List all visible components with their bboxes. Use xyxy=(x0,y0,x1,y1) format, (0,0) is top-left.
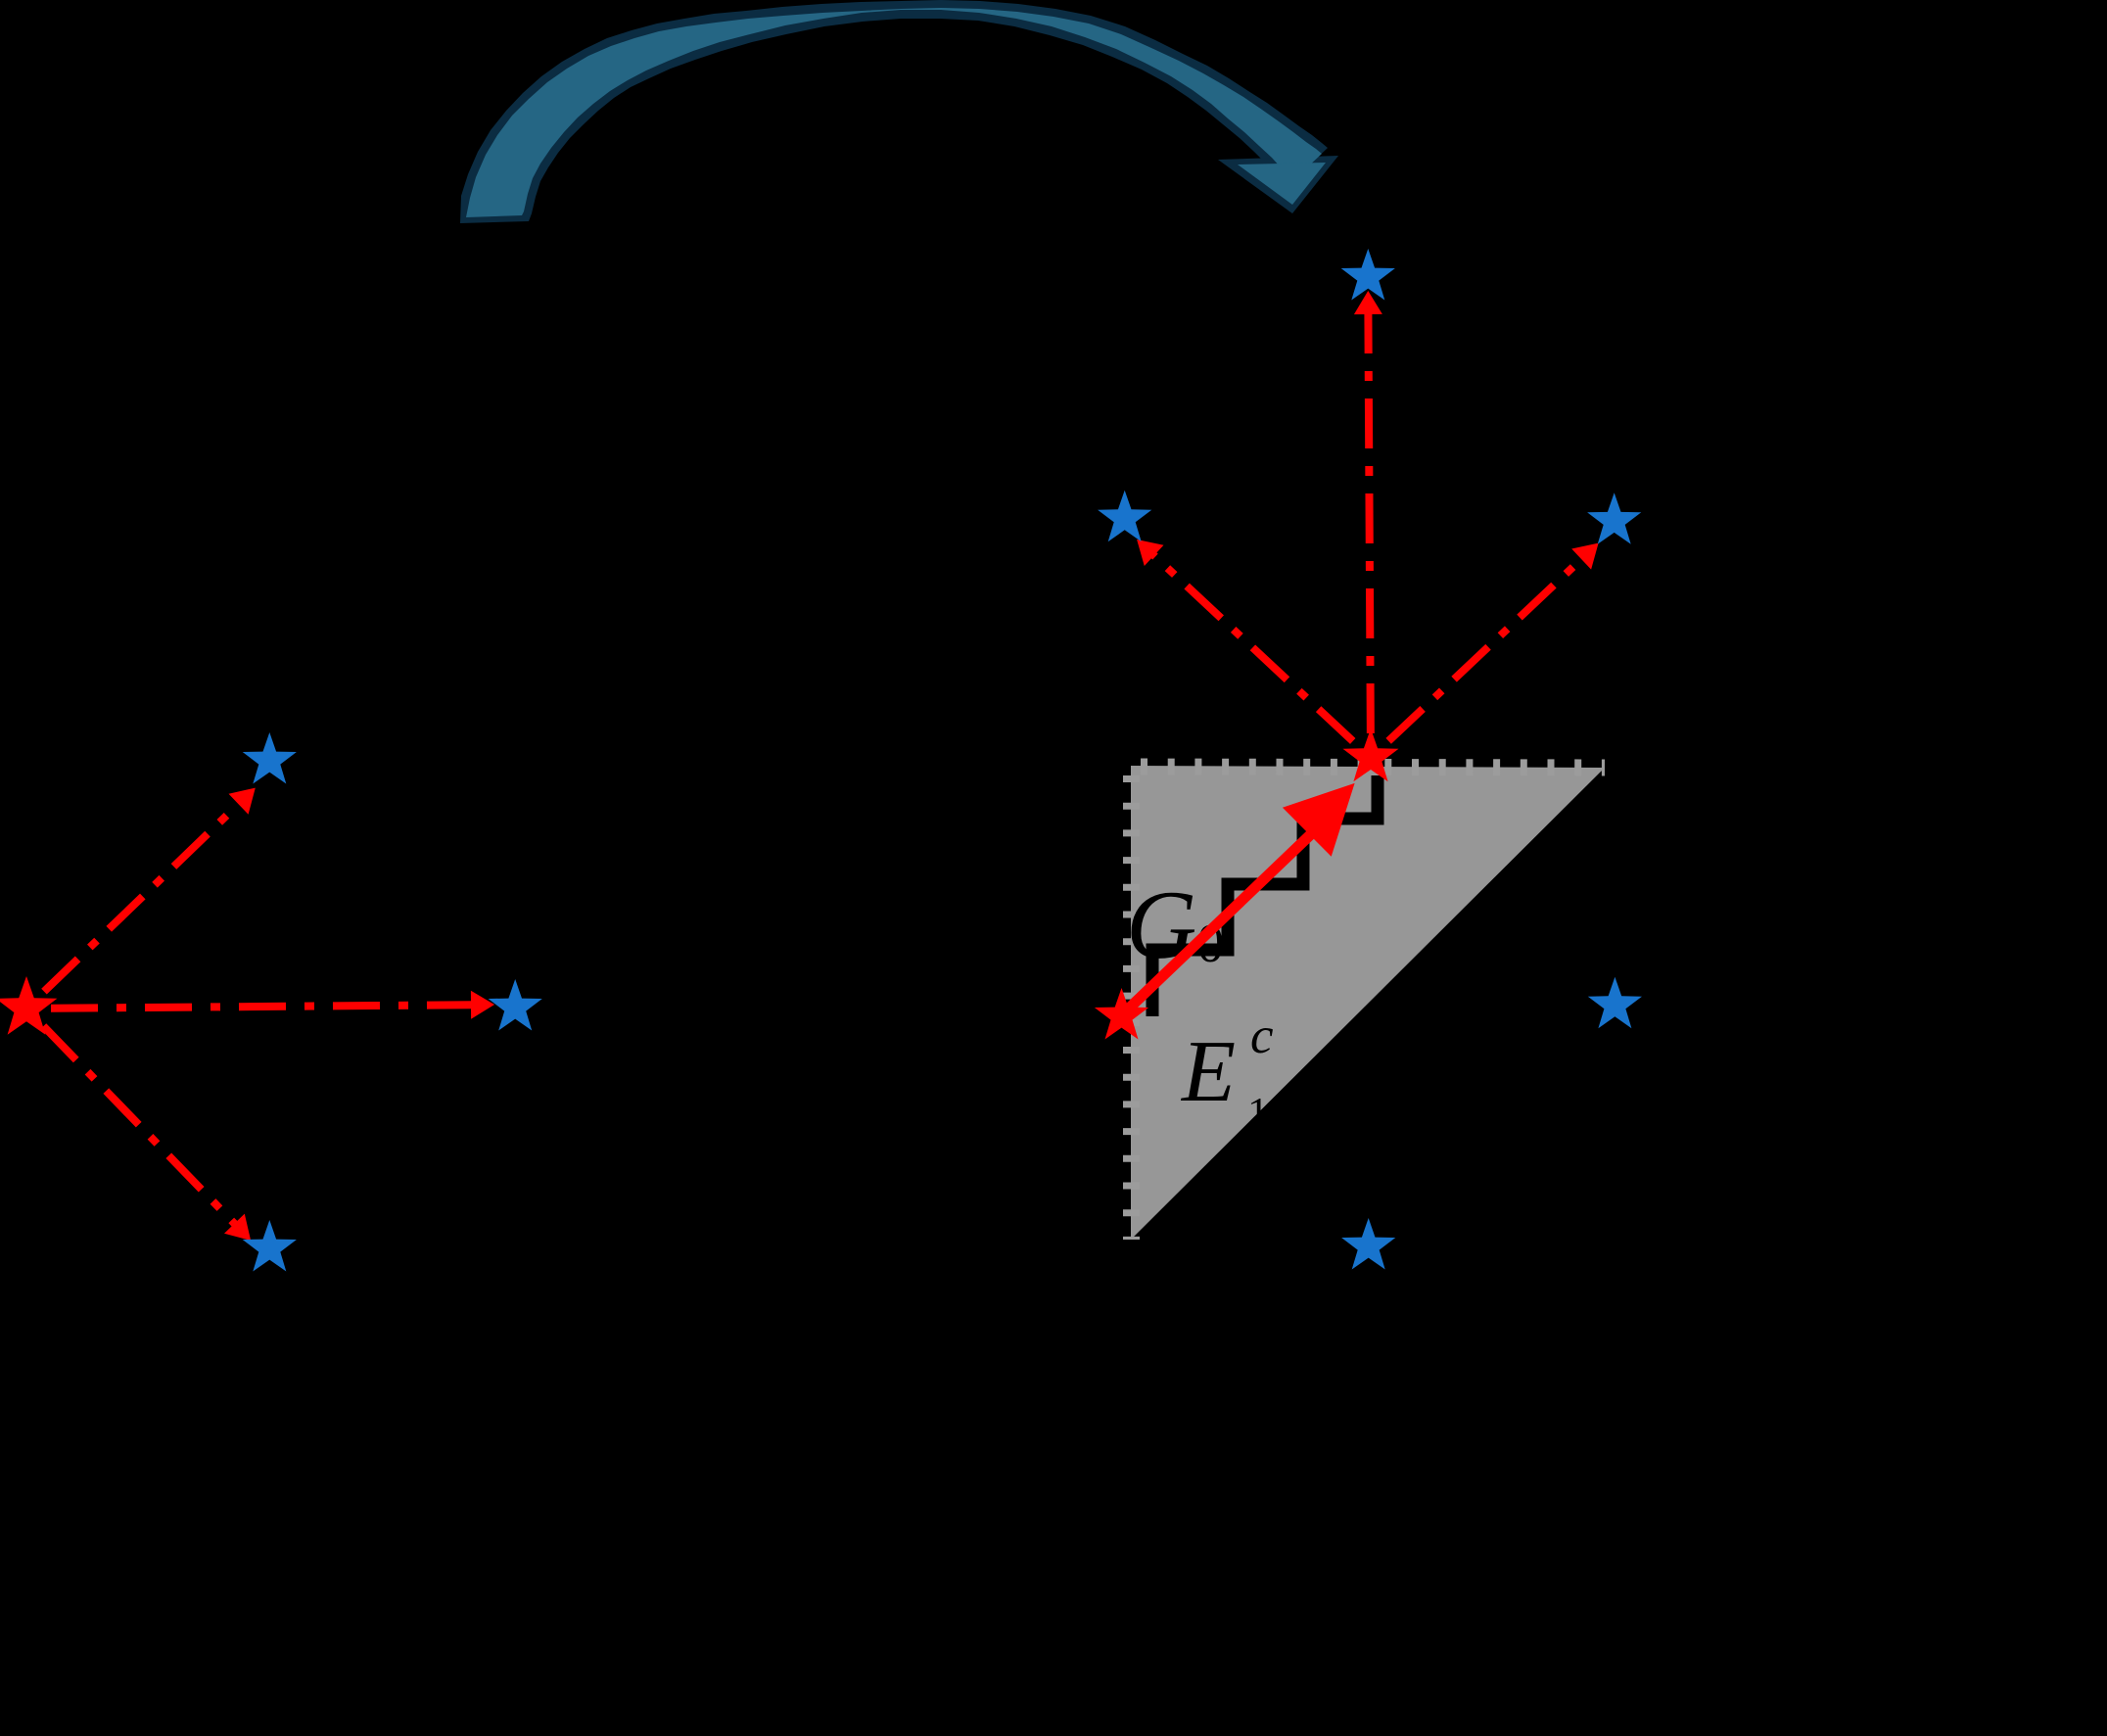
blue star 6 (center right) xyxy=(1587,493,1641,544)
blue star 8 (bottom center) xyxy=(1341,1218,1395,1270)
black staircase line xyxy=(1152,775,1378,1016)
blue star 1 (upper-left group) xyxy=(243,732,297,784)
thick red arrow G0 vector from red star B to red star C xyxy=(1122,833,1313,1015)
blue star 3 (lower-left group) xyxy=(243,1220,297,1272)
red star C (center, origin of fan) xyxy=(1343,728,1399,781)
blue star 7 (right lower) xyxy=(1588,977,1642,1028)
red dash-dot arrow L2 (left origin to right blue star) xyxy=(26,1005,474,1009)
swoosh arrowhead teal fill xyxy=(1238,163,1326,205)
dashed border top edge of triangle xyxy=(1131,767,1605,768)
red dash-dot arrow C3 (center star to upper-right blue star) xyxy=(1371,557,1583,758)
blue star 5 (center left) xyxy=(1098,491,1151,542)
gray region E1c (right triangle) xyxy=(1131,766,1605,1240)
red dash-dot arrow L3 (left origin to lower-left blue star) xyxy=(26,1009,237,1226)
red dash-dot arrow C1 (center star up to top blue star) xyxy=(1368,311,1371,758)
dashed border left edge of triangle xyxy=(1123,766,1140,1240)
swoosh arrowhead dark outline xyxy=(1218,156,1338,213)
blue star 2 (left group right) xyxy=(489,979,542,1031)
swoosh band teal fill xyxy=(466,8,1322,217)
teal curved swoosh arrow: dark outline band xyxy=(460,0,1328,223)
red star A (left origin) xyxy=(0,976,57,1035)
red star B (bottom of G0 vector) xyxy=(1095,988,1148,1040)
blue star 4 (top center) xyxy=(1341,249,1395,301)
red dash-dot arrow L1 (left origin to upper-left blue star) xyxy=(26,802,241,1009)
red dash-dot arrow C2 (center star to upper-left blue star) xyxy=(1152,553,1372,758)
